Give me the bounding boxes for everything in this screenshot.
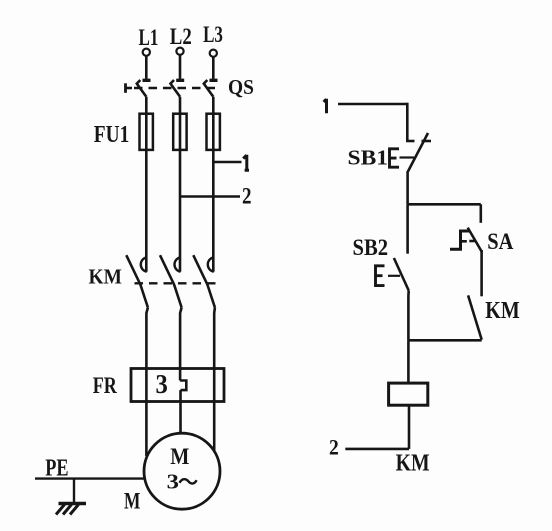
- svg-text:M: M: [170, 444, 189, 469]
- terminal circle L1: [143, 49, 150, 56]
- FR heater element jog: [180, 381, 186, 391]
- switch QS pole 2: [171, 80, 185, 97]
- node 2 wire: [180, 195, 240, 198]
- earth connection wire: [73, 479, 75, 503]
- QS linkage handle: [126, 83, 133, 93]
- wire L2 to QS: [179, 55, 182, 79]
- pushbutton SB1 (NC): [390, 133, 432, 171]
- svg-text:L3: L3: [203, 22, 223, 47]
- svg-text:FR: FR: [93, 373, 117, 398]
- label node 1 control: [324, 99, 327, 114]
- svg-text:FU1: FU1: [94, 122, 130, 148]
- svg-text:3: 3: [156, 369, 168, 399]
- terminal circle L2: [176, 48, 183, 55]
- tilde of 3-phase inside motor: [180, 479, 197, 483]
- wire down to SB1: [406, 103, 409, 141]
- fuse FU1 pole 1: [140, 114, 153, 150]
- svg-text:2: 2: [242, 183, 252, 208]
- wire pole2 KM to FR heater: [180, 308, 182, 381]
- motor M circle: [144, 433, 220, 509]
- svg-text:KM: KM: [396, 451, 430, 477]
- label node 1: [243, 155, 249, 171]
- wire phase A (QS to KM contact): [145, 97, 148, 272]
- wire SA branch upper: [479, 204, 482, 223]
- wire pole1 KM to motor: [146, 308, 148, 457]
- wire SB1 to junction: [406, 171, 409, 204]
- switch SA: [450, 228, 482, 253]
- wire pole2 FR to motor: [179, 390, 182, 434]
- thermal relay FR box: [131, 369, 224, 402]
- svg-text:L2: L2: [170, 24, 192, 49]
- pushbutton SB2 (NO): [376, 258, 409, 291]
- ground symbol: [56, 504, 86, 515]
- node 1 wire: [213, 161, 241, 164]
- wire SA to KM contact: [480, 250, 483, 296]
- wire junction to SB2: [406, 204, 409, 253]
- fuse FU1 pole 3: [207, 114, 220, 150]
- wire bottom rail control: [408, 339, 481, 342]
- wire top rail control: [338, 103, 407, 106]
- KM linkage dashed line: [135, 282, 217, 284]
- switch QS pole 3: [204, 80, 218, 97]
- wire terminal 2: [345, 448, 409, 451]
- svg-text:2: 2: [329, 434, 339, 459]
- contact KM aux (NO): [468, 295, 482, 339]
- svg-text:KM: KM: [485, 298, 519, 324]
- contactor KM main pole 1: [126, 255, 148, 307]
- wire SB2 to bottom rail: [407, 291, 410, 341]
- wire PE rail: [35, 477, 148, 479]
- wire phase C (QS to KM contact): [212, 97, 215, 272]
- QS linkage dashed line: [134, 87, 218, 89]
- wire rail to coil: [407, 340, 410, 383]
- svg-text:QS: QS: [228, 75, 254, 99]
- contactor KM main pole 2: [160, 255, 182, 307]
- wire phase B (QS to KM contact): [179, 97, 182, 272]
- svg-text:KM: KM: [89, 264, 123, 288]
- wire junction to SA branch: [408, 203, 481, 206]
- svg-text:PE: PE: [45, 456, 68, 482]
- svg-text:SB2: SB2: [353, 235, 389, 260]
- switch QS pole 1: [137, 80, 151, 97]
- wire L3 to QS: [212, 57, 215, 79]
- coil KM: [389, 383, 428, 405]
- svg-text:3: 3: [167, 469, 179, 493]
- contactor KM main pole 3: [193, 255, 215, 307]
- wire coil to terminal 2: [408, 405, 411, 449]
- svg-text:SA: SA: [487, 229, 513, 254]
- fuse FU1 pole 2: [173, 114, 186, 150]
- svg-text:M: M: [124, 489, 141, 514]
- svg-text:SB1: SB1: [348, 146, 389, 170]
- svg-text:L1: L1: [139, 25, 159, 50]
- wire pole3 KM to motor: [213, 308, 216, 456]
- wire L1 to QS: [145, 56, 148, 79]
- terminal circle L3: [210, 50, 217, 57]
